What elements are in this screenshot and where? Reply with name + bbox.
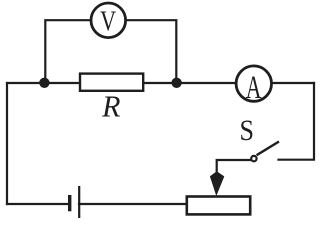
svg-text:R: R [101, 89, 121, 124]
svg-text:V: V [100, 5, 116, 38]
svg-text:A: A [246, 69, 262, 106]
svg-text:S: S [239, 114, 254, 147]
